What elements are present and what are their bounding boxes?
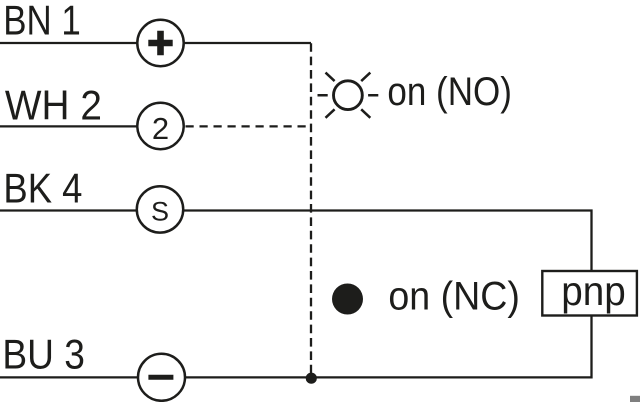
svg-text:on (NO): on (NO) bbox=[387, 70, 512, 114]
svg-text:BK 4: BK 4 bbox=[3, 165, 82, 212]
wire BK 4 horizontal + right vertical to pnp box top bbox=[0, 211, 592, 272]
wire WH 2 horizontal solid left part bbox=[0, 125, 140, 127]
svg-text:WH 2: WH 2 bbox=[5, 82, 102, 129]
wire BN 1 horizontal bbox=[0, 42, 311, 44]
wire dashed vertical from BN1 corner to junction bbox=[310, 43, 312, 373]
svg-text:BU 3: BU 3 bbox=[2, 331, 85, 378]
svg-text:on (NC): on (NC) bbox=[388, 275, 520, 319]
terminal - (BU) bbox=[138, 354, 185, 401]
decorative gray corner mark bbox=[630, 396, 640, 402]
wire dashed from circle 2 to node bbox=[186, 125, 312, 127]
terminal 2 (WH) bbox=[137, 103, 183, 149]
NC dot indicator bbox=[332, 284, 363, 315]
svg-text:S: S bbox=[151, 196, 169, 226]
pnp output box U1 bbox=[542, 268, 637, 316]
junction node on BU 3 bbox=[306, 373, 317, 384]
LED symbol (NO indicator) bbox=[318, 73, 379, 118]
terminal S (BK) bbox=[137, 186, 183, 232]
svg-text:2: 2 bbox=[152, 111, 169, 146]
svg-text:BN 1: BN 1 bbox=[3, 0, 81, 44]
terminal + (BN) bbox=[137, 20, 183, 66]
svg-text:pnp: pnp bbox=[561, 268, 626, 314]
wire BU 3 horizontal + right vertical to pnp box bottom bbox=[0, 316, 592, 378]
